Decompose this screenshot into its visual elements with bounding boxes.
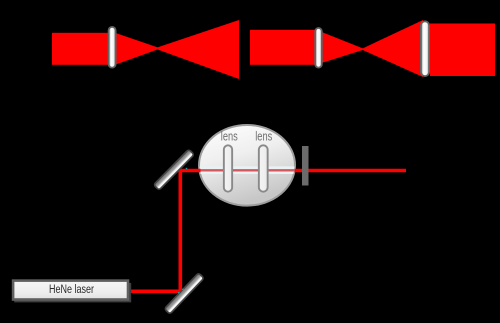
svg-text:lens: lens [221,129,238,143]
diverging cone from focus (left diagram) [155,20,240,79]
label lens (left) [221,129,238,143]
lens capsule C2 inside housing [259,145,268,191]
label lens (right) [255,129,272,143]
beam rectangle B1 (input beam, left diagram) [52,33,116,65]
junction dot at lower corner [178,292,179,293]
mirror M2 (upper) [154,149,195,190]
lens L2 [315,28,322,68]
diverging cone to lens L3 [361,20,423,77]
lens L1 [109,27,116,68]
mirror M1 (lower) [164,273,204,314]
HeNe laser box [13,281,128,300]
svg-text:lens: lens [255,129,272,143]
junction dot above lower mirror [182,289,183,290]
vertical beam segment M1 to M2 [179,169,183,293]
label HeNe laser [49,282,94,296]
beam rectangle B2 (input beam, right diagram) [250,30,317,65]
beam segment housing to screen and beyond [295,169,407,172]
junction dot near upper mirror [186,168,187,169]
svg-text:HeNe laser: HeNe laser [49,282,94,296]
HeNe laser box shadow [14,283,131,303]
expanded output beam B3 [430,24,495,77]
optical axis glow inside housing [196,166,298,174]
converging cone after lens L2 [316,30,365,65]
optical axis line inside housing [196,169,298,171]
beam expander housing (circle) [199,125,295,206]
lens L3 [421,21,429,76]
horizontal beam segment through lenses [179,169,201,172]
beam segment laser to mirror M1 [129,289,181,293]
beam block / screen bar [302,146,309,186]
lens capsule C1 inside housing [224,145,232,191]
converging cone after lens L1 [115,33,161,65]
